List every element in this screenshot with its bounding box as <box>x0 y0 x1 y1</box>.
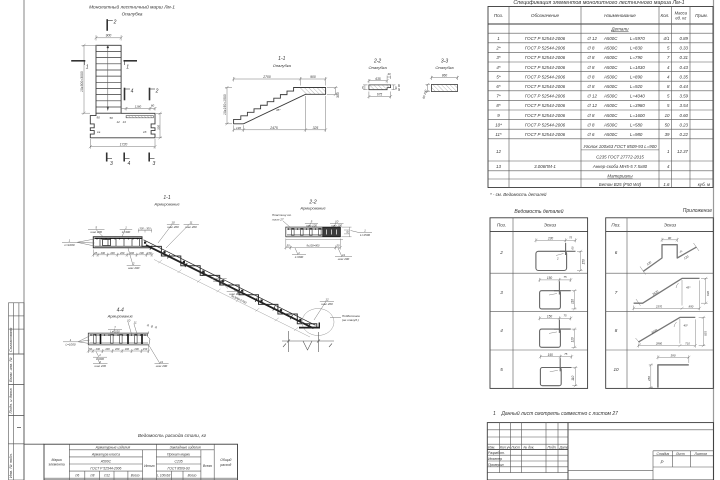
svg-text:Лист: Лист <box>675 452 685 456</box>
svg-text:0.33: 0.33 <box>679 46 688 51</box>
svg-text:∅6: ∅6 <box>75 474 80 478</box>
svg-text:75: 75 <box>563 275 567 279</box>
svg-text:3: 3 <box>500 290 503 295</box>
svg-text:1 Данный лист смотреть совм: 1 Данный лист смотреть совместно с листо… <box>493 410 618 417</box>
svg-text:60 90: 60 90 <box>397 84 401 91</box>
svg-text:А500С: А500С <box>603 74 618 79</box>
svg-text:3-3: 3-3 <box>441 58 448 64</box>
svg-text:4/1: 4/1 <box>663 36 670 41</box>
svg-text:900: 900 <box>106 34 112 38</box>
svg-text:2475: 2475 <box>269 126 278 130</box>
svg-text:∅ 8: ∅ 8 <box>587 74 595 79</box>
svg-text:Уголок 100х63 ГОСТ 8509-93 L=9: Уголок 100х63 ГОСТ 8509-93 L=900 <box>583 144 657 149</box>
svg-text:шаг 200: шаг 200 <box>321 302 333 306</box>
svg-text:А500С: А500С <box>603 94 618 99</box>
svg-text:325: 325 <box>313 126 319 130</box>
svg-text:ГОСТ Р 52544-2006: ГОСТ Р 52544-2006 <box>525 55 566 60</box>
svg-text:0.23: 0.23 <box>679 122 688 127</box>
svg-text:1б: 1б <box>143 130 147 134</box>
svg-text:90: 90 <box>668 236 672 240</box>
svg-text:4: 4 <box>500 328 503 333</box>
svg-text:* - см. Ведомость деталей: * - см. Ведомость деталей <box>490 192 547 197</box>
svg-text:ГОСТ Р 52544-2006: ГОСТ Р 52544-2006 <box>525 103 566 108</box>
svg-text:L=1500: L=1500 <box>360 233 370 237</box>
svg-text:39: 39 <box>665 132 670 137</box>
svg-text:ГОСТ 8509-93: ГОСТ 8509-93 <box>168 467 190 471</box>
svg-text:∅12: ∅12 <box>104 474 111 478</box>
svg-text:Стадия: Стадия <box>657 452 670 456</box>
svg-text:300: 300 <box>336 92 340 98</box>
svg-text:Наименование: Наименование <box>604 13 636 18</box>
svg-text:12: 12 <box>325 298 329 302</box>
svg-text:1: 1 <box>86 65 89 71</box>
svg-text:890: 890 <box>689 304 694 308</box>
svg-text:шаг 400: шаг 400 <box>90 230 102 234</box>
svg-text:Бетон В25 (F50 W4): Бетон В25 (F50 W4) <box>599 182 642 187</box>
svg-text:230: 230 <box>547 236 554 240</box>
svg-text:Подп.: Подп. <box>548 445 557 449</box>
svg-text:635: 635 <box>375 77 381 81</box>
svg-text:ГОСТ Р 52544-2006: ГОСТ Р 52544-2006 <box>90 467 121 471</box>
svg-text:200: 200 <box>109 251 115 255</box>
svg-text:∅ 12: ∅ 12 <box>587 36 597 41</box>
svg-text:∅8: ∅8 <box>90 474 95 478</box>
svg-text:50: 50 <box>110 116 114 120</box>
svg-text:ГОСТ Р 52544-2006: ГОСТ Р 52544-2006 <box>525 132 566 137</box>
svg-text:710: 710 <box>685 342 690 346</box>
svg-text:А500С: А500С <box>603 55 618 60</box>
svg-text:11: 11 <box>134 321 137 325</box>
svg-text:Опалубка: Опалубка <box>122 12 143 17</box>
svg-text:Лист: Лист <box>510 445 520 449</box>
svg-text:200: 200 <box>119 251 125 255</box>
svg-text:11: 11 <box>342 253 345 257</box>
svg-text:10х150=1500: 10х150=1500 <box>223 94 227 115</box>
svg-text:4: 4 <box>128 161 131 167</box>
svg-text:2*: 2* <box>495 46 500 51</box>
svg-text:Приложение: Приложение <box>683 208 712 214</box>
svg-text:0.60: 0.60 <box>679 113 688 118</box>
svg-text:Подбетонка: Подбетонка <box>342 314 360 318</box>
svg-text:300: 300 <box>146 227 151 231</box>
svg-text:Обозначение: Обозначение <box>531 13 560 18</box>
svg-text:L=600: L=600 <box>295 255 304 259</box>
svg-text:8*: 8* <box>496 103 500 108</box>
svg-text:L=830: L=830 <box>630 46 643 51</box>
svg-text:250: 250 <box>647 376 651 382</box>
svg-text:Эскиз: Эскиз <box>544 222 557 227</box>
svg-text:Анкер-скоба МН5-5 7.5х80: Анкер-скоба МН5-5 7.5х80 <box>592 164 648 169</box>
svg-text:А500С: А500С <box>603 65 618 70</box>
svg-text:200: 200 <box>114 347 120 351</box>
svg-text:№ док.: № док. <box>524 445 535 449</box>
svg-text:L=1000: L=1000 <box>64 243 74 247</box>
svg-text:12: 12 <box>117 120 121 124</box>
svg-text:3.59: 3.59 <box>679 94 688 99</box>
svg-text:∅ 8: ∅ 8 <box>587 46 595 51</box>
svg-text:8: 8 <box>615 328 618 333</box>
svg-text:3: 3 <box>153 161 156 167</box>
svg-text:ед. кг: ед. кг <box>675 16 686 21</box>
svg-text:Всего: Всего <box>188 474 197 478</box>
svg-text:11: 11 <box>160 360 163 364</box>
svg-text:0.35: 0.35 <box>679 74 688 79</box>
svg-text:Монолитный лестничный марш Лм-: Монолитный лестничный марш Лм-1 <box>89 4 175 11</box>
svg-text:13: 13 <box>123 120 127 124</box>
svg-text:2370: 2370 <box>655 304 663 308</box>
svg-text:шаг 100: шаг 100 <box>331 224 342 228</box>
svg-text:40: 40 <box>387 72 391 76</box>
svg-text:200: 200 <box>133 347 139 351</box>
svg-text:Изм.: Изм. <box>488 445 495 449</box>
svg-text:шаг 200: шаг 200 <box>167 225 179 229</box>
svg-text:12.37: 12.37 <box>677 149 689 154</box>
svg-text:150: 150 <box>143 347 148 351</box>
svg-text:75: 75 <box>361 86 365 90</box>
svg-text:860: 860 <box>442 74 448 78</box>
svg-text:200: 200 <box>100 251 106 255</box>
svg-text:∅ 8: ∅ 8 <box>587 65 595 70</box>
svg-text:0.89: 0.89 <box>679 36 688 41</box>
svg-text:10*: 10* <box>495 122 502 127</box>
svg-text:Кол.: Кол. <box>660 13 669 18</box>
svg-text:шаг 200: шаг 200 <box>156 364 168 368</box>
svg-text:ГОСТ Р 52544-2006: ГОСТ Р 52544-2006 <box>525 113 566 118</box>
svg-text:Взам. инв. №: Взам. инв. № <box>8 357 13 382</box>
svg-text:А500С: А500С <box>603 113 618 118</box>
svg-text:ГОСТ Р 52544-2006: ГОСТ Р 52544-2006 <box>525 84 566 89</box>
svg-text:Всего: Всего <box>131 474 140 478</box>
svg-text:Поз.: Поз. <box>611 222 620 227</box>
svg-text:Ведомость деталей: Ведомость деталей <box>514 208 563 215</box>
svg-text:2880: 2880 <box>655 342 663 346</box>
svg-text:Согласовано: Согласовано <box>8 327 13 352</box>
svg-text:шаг 200: шаг 200 <box>94 364 106 368</box>
svg-text:130: 130 <box>236 126 241 130</box>
svg-text:2: 2 <box>98 360 101 364</box>
svg-text:L=980: L=980 <box>630 132 643 137</box>
svg-text:Детали: Детали <box>610 27 629 32</box>
svg-text:ГОСТ Р 52544-2006: ГОСТ Р 52544-2006 <box>525 36 566 41</box>
svg-text:900: 900 <box>310 75 316 79</box>
svg-text:элемента: элемента <box>49 462 65 466</box>
svg-text:45°: 45° <box>686 285 691 289</box>
svg-text:7*: 7* <box>496 94 500 99</box>
svg-text:2: 2 <box>113 20 117 26</box>
svg-text:1-1: 1-1 <box>278 56 285 62</box>
svg-text:С235: С235 <box>175 459 183 463</box>
svg-text:3: 3 <box>110 161 113 167</box>
svg-text:50: 50 <box>665 122 670 127</box>
svg-text:Инженер: Инженер <box>488 457 502 461</box>
svg-text:150: 150 <box>547 276 553 280</box>
svg-text:0.22: 0.22 <box>679 132 688 137</box>
svg-text:ГОСТ Р 52544-2006: ГОСТ Р 52544-2006 <box>525 94 566 99</box>
svg-text:4*: 4* <box>496 65 500 70</box>
svg-text:2700: 2700 <box>262 75 271 79</box>
svg-text:75: 75 <box>569 236 573 240</box>
svg-text:шаг 100: шаг 100 <box>306 224 317 228</box>
svg-text:12: 12 <box>496 149 501 154</box>
svg-text:ГОСТ Р 52544-2006: ГОСТ Р 52544-2006 <box>525 65 566 70</box>
svg-text:ГОСТ Р 52544-2006: ГОСТ Р 52544-2006 <box>525 46 566 51</box>
svg-text:925: 925 <box>703 331 707 336</box>
svg-text:С235 ГОСТ 27772-2015: С235 ГОСТ 27772-2015 <box>596 155 644 160</box>
svg-text:Спецификация элементов монолит: Спецификация элементов монолитного лестн… <box>513 0 684 6</box>
svg-text:200: 200 <box>95 347 101 351</box>
svg-text:А500С: А500С <box>603 36 618 41</box>
svg-text:10: 10 <box>665 113 670 118</box>
svg-text:∅ 8: ∅ 8 <box>587 84 595 89</box>
svg-text:0.43: 0.43 <box>679 65 688 70</box>
svg-text:А500С: А500С <box>603 122 618 127</box>
svg-text:90: 90 <box>97 116 101 120</box>
svg-text:2: 2 <box>155 88 159 94</box>
svg-text:∅ 8: ∅ 8 <box>587 55 595 60</box>
svg-text:(не опалуб.): (не опалуб.) <box>342 318 359 322</box>
svg-text:L=1600: L=1600 <box>630 113 645 118</box>
svg-text:Опалубка: Опалубка <box>369 65 388 70</box>
svg-text:А500С: А500С <box>603 132 618 137</box>
svg-text:L=5970: L=5970 <box>630 36 645 41</box>
svg-text:13: 13 <box>496 164 501 169</box>
svg-text:10: 10 <box>171 221 175 225</box>
svg-text:330: 330 <box>156 125 160 130</box>
svg-text:Листов: Листов <box>694 452 708 456</box>
svg-text:1720: 1720 <box>120 143 128 147</box>
svg-text:Арматура класса: Арматура класса <box>91 452 120 456</box>
svg-text:5*: 5* <box>496 74 500 79</box>
svg-text:куб. м: куб. м <box>698 182 710 187</box>
svg-text:5: 5 <box>500 367 503 372</box>
svg-text:∅ 8: ∅ 8 <box>587 122 595 127</box>
svg-text:6: 6 <box>615 250 618 255</box>
svg-text:Материалы: Материалы <box>607 174 633 179</box>
svg-text:L=890: L=890 <box>630 74 643 79</box>
svg-text:ГОСТ Р 52544-2006: ГОСТ Р 52544-2006 <box>525 122 566 127</box>
svg-text:Эскиз: Эскиз <box>664 222 677 227</box>
svg-text:Опалубка: Опалубка <box>435 65 454 70</box>
svg-text:шаг 200: шаг 200 <box>213 279 225 283</box>
svg-text:1: 1 <box>126 65 129 71</box>
svg-text:L=1030: L=1030 <box>110 330 120 334</box>
svg-text:Р: Р <box>661 460 664 465</box>
svg-text:L=4040: L=4040 <box>630 94 645 99</box>
svg-text:L=790: L=790 <box>630 55 643 60</box>
svg-text:10: 10 <box>127 319 131 323</box>
svg-text:11: 11 <box>189 221 192 225</box>
svg-text:675: 675 <box>377 93 383 97</box>
svg-text:200: 200 <box>104 347 110 351</box>
svg-text:L=3980: L=3980 <box>630 103 645 108</box>
svg-text:А500С: А500С <box>603 84 618 89</box>
svg-text:Прим.: Прим. <box>695 13 708 18</box>
svg-text:3.006ПМ-1: 3.006ПМ-1 <box>534 164 556 169</box>
svg-text:шаг 200: шаг 200 <box>128 266 140 270</box>
svg-text:∅ 12: ∅ 12 <box>587 94 597 99</box>
svg-text:А500С: А500С <box>603 103 618 108</box>
svg-text:Дата: Дата <box>559 445 569 449</box>
svg-text:∅ 8: ∅ 8 <box>587 113 595 118</box>
svg-text:Всего: Всего <box>203 464 212 468</box>
svg-text:300: 300 <box>139 227 144 231</box>
svg-text:2: 2 <box>556 257 559 261</box>
svg-text:150: 150 <box>581 259 585 265</box>
svg-text:0.31: 0.31 <box>679 55 688 60</box>
svg-text:150: 150 <box>147 251 152 255</box>
svg-text:630: 630 <box>706 291 710 296</box>
svg-text:∅ 12: ∅ 12 <box>587 103 597 108</box>
svg-text:6*: 6* <box>496 84 500 89</box>
svg-text:Марка: Марка <box>52 458 62 462</box>
svg-text:Подп. и дата: Подп. и дата <box>8 388 13 414</box>
svg-text:L=1830: L=1830 <box>630 65 645 70</box>
svg-text:0.44: 0.44 <box>679 84 688 89</box>
svg-text:Разработ.: Разработ. <box>488 451 505 455</box>
svg-text:Кол.уч: Кол.уч <box>500 445 510 449</box>
svg-text:2: 2 <box>132 261 135 265</box>
svg-text:Общий: Общий <box>220 458 231 462</box>
svg-text:45°: 45° <box>684 323 689 327</box>
svg-text:Армирование: Армирование <box>299 206 326 211</box>
svg-text:10х300=3000: 10х300=3000 <box>80 71 84 92</box>
svg-text:110: 110 <box>570 299 574 304</box>
svg-text:4: 4 <box>131 88 134 94</box>
svg-text:45°: 45° <box>276 108 281 112</box>
svg-text:Ведомость расхода стали, кг: Ведомость расхода стали, кг <box>138 433 207 439</box>
svg-text:1-1: 1-1 <box>163 195 170 201</box>
svg-text:L=300: L=300 <box>122 230 131 234</box>
svg-text:Итого: Итого <box>144 464 155 468</box>
svg-text:лист 27: лист 27 <box>271 217 284 221</box>
svg-text:расход: расход <box>219 463 231 467</box>
svg-text:1а: 1а <box>97 130 101 134</box>
svg-text:3.54: 3.54 <box>679 103 688 108</box>
svg-text:60: 60 <box>151 104 155 108</box>
svg-text:2-2: 2-2 <box>373 58 381 64</box>
svg-text:Поз.: Поз. <box>497 222 506 227</box>
svg-text:390: 390 <box>670 353 675 357</box>
svg-text:Арматурные изделия: Арматурные изделия <box>95 446 131 450</box>
svg-text:Поз.: Поз. <box>494 13 503 18</box>
svg-text:Армирование: Армирование <box>153 202 180 207</box>
svg-text:7: 7 <box>615 290 618 295</box>
svg-text:∅ 6: ∅ 6 <box>587 132 595 137</box>
svg-text:Прокат марки: Прокат марки <box>167 452 190 456</box>
svg-text:1.6: 1.6 <box>663 182 670 187</box>
svg-text:ГОСТ Р 52544-2006: ГОСТ Р 52544-2006 <box>525 74 566 79</box>
svg-text:L=920: L=920 <box>630 84 643 89</box>
svg-text:200: 200 <box>138 251 144 255</box>
svg-text:А500С: А500С <box>603 46 618 51</box>
svg-text:Закладные изделия: Закладные изделия <box>170 446 201 450</box>
svg-text:1160: 1160 <box>135 105 142 109</box>
svg-text:L=580: L=580 <box>630 122 643 127</box>
svg-text:3*: 3* <box>496 55 500 60</box>
svg-text:L 100х63: L 100х63 <box>157 474 170 478</box>
svg-text:Проверил: Проверил <box>488 463 504 467</box>
svg-text:шаг 200: шаг 200 <box>338 257 350 261</box>
svg-text:Инв. № подл.: Инв. № подл. <box>8 453 13 478</box>
svg-text:11*: 11* <box>495 132 502 137</box>
svg-text:L=1000: L=1000 <box>65 342 75 346</box>
svg-text:10: 10 <box>613 367 619 372</box>
svg-text:200: 200 <box>124 347 130 351</box>
svg-text:шаг 200: шаг 200 <box>185 225 197 229</box>
svg-text:Опалубка: Опалубка <box>273 63 292 68</box>
svg-text:2: 2 <box>499 250 503 255</box>
svg-text:9х100=900: 9х100=900 <box>307 244 320 248</box>
svg-text:А500С: А500С <box>100 459 112 463</box>
